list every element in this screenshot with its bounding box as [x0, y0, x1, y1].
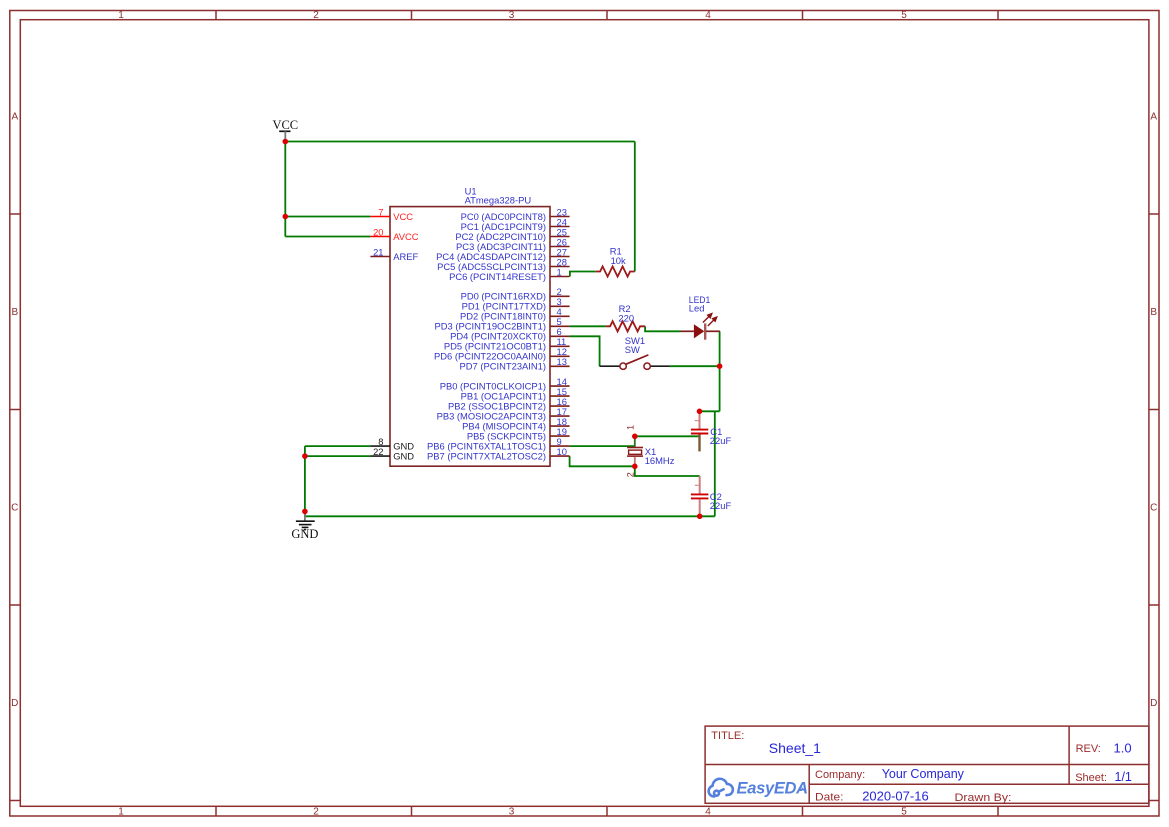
node C1 pin1: [697, 409, 703, 415]
wire over crystal pin1 (overlap): [634, 436, 636, 447]
junction dots: [283, 139, 723, 519]
svg-text:2: 2: [626, 472, 636, 477]
pin 19 PB5: [467, 426, 570, 442]
wire R1 right vertical: [634, 142, 636, 272]
svg-text:5: 5: [901, 10, 907, 21]
svg-text:10k: 10k: [611, 255, 626, 266]
svg-text:Date:: Date:: [815, 791, 844, 803]
wire pin5 to R2: [570, 325, 606, 327]
svg-text:EasyEDA: EasyEDA: [737, 780, 808, 798]
svg-text:4: 4: [705, 807, 711, 818]
wire pin8 GND: [305, 445, 371, 447]
wire LED cathode down: [719, 331, 721, 411]
svg-text:GND: GND: [393, 451, 414, 462]
svg-text:Company:: Company:: [815, 769, 865, 781]
wire pin10 to crystal pin2: [570, 456, 635, 466]
svg-text:A: A: [11, 112, 18, 123]
pin 6 PD4: [450, 326, 569, 342]
resistor R1: [596, 246, 635, 277]
pin 4 PD2: [460, 306, 570, 322]
svg-text:Sheet_1: Sheet_1: [769, 740, 821, 756]
node GND pin22: [302, 453, 308, 459]
frame column numbers bottom: [118, 807, 907, 818]
svg-text:REV:: REV:: [1076, 743, 1101, 755]
svg-text:3: 3: [509, 807, 515, 818]
LED LED1: [681, 294, 720, 340]
svg-text:3: 3: [509, 10, 515, 21]
frame column numbers top: [118, 10, 907, 21]
pin 7 VCC: [370, 206, 413, 222]
pin 18 PB4: [462, 416, 569, 432]
svg-text:A: A: [1150, 112, 1157, 123]
svg-text:D: D: [1150, 698, 1157, 709]
svg-text:ATmega328-PU: ATmega328-PU: [465, 195, 532, 206]
node VCC/pin7: [283, 214, 289, 220]
EasyEDA logo: [709, 779, 733, 797]
pin 5 PD3: [435, 316, 570, 332]
wire GND left vertical: [304, 446, 306, 516]
svg-text:10: 10: [557, 446, 567, 457]
svg-text:7: 7: [378, 206, 383, 217]
svg-text:1: 1: [626, 425, 636, 430]
wire crystal pin2 to C2: [635, 466, 700, 476]
wire pin6 to switch: [570, 336, 600, 366]
capacitor C1: [691, 411, 732, 451]
switch SW1: [600, 335, 670, 369]
svg-text:2020-07-16: 2020-07-16: [862, 789, 929, 804]
svg-text:C: C: [11, 503, 18, 514]
frame row ticks left: [10, 214, 20, 801]
wire pin9 to crystal: [570, 445, 635, 447]
wire to pin7 VCC: [285, 216, 370, 218]
svg-text:SW: SW: [625, 344, 640, 355]
pin 26 PC3: [456, 236, 570, 252]
frame row letters left: [11, 112, 18, 710]
svg-text:GND: GND: [291, 527, 318, 541]
svg-text:2: 2: [313, 807, 319, 818]
svg-text:22uF: 22uF: [710, 500, 732, 511]
pin 10 PB7: [427, 446, 570, 462]
pin 23 PC0: [461, 206, 570, 222]
frame column ticks bottom: [216, 806, 998, 816]
svg-text:4: 4: [705, 10, 711, 21]
svg-text:Led: Led: [689, 303, 705, 314]
op-amp U1 body: [390, 207, 550, 467]
wire pin22 GND: [305, 455, 371, 457]
pin 13 PD7: [460, 356, 570, 372]
pin 17 PB3: [437, 406, 570, 422]
pin 27 PC4: [436, 246, 570, 262]
pin 2 PD0: [461, 286, 570, 302]
node GND symbol: [302, 509, 308, 515]
frame row ticks right: [1149, 214, 1159, 801]
svg-text:22: 22: [373, 446, 383, 457]
svg-text:220: 220: [618, 313, 634, 324]
node VCC flag: [283, 139, 289, 145]
pin 16 PB2: [448, 396, 570, 412]
pin 28 PC5: [437, 256, 569, 272]
svg-text:22uF: 22uF: [710, 435, 732, 446]
svg-text:PB7 (PCINT7XTAL2TOSC2): PB7 (PCINT7XTAL2TOSC2): [427, 451, 546, 462]
pin 1 PC6: [449, 266, 570, 282]
svg-text:PD7 (PCINT23AIN1): PD7 (PCINT23AIN1): [460, 361, 546, 372]
pin 9 PB6: [427, 436, 570, 452]
svg-text:13: 13: [557, 356, 567, 367]
svg-text:2: 2: [313, 10, 319, 21]
svg-text:TITLE:: TITLE:: [711, 730, 744, 742]
svg-text:1/1: 1/1: [1115, 770, 1132, 784]
svg-text:20: 20: [373, 226, 383, 237]
svg-text:1: 1: [118, 807, 124, 818]
crystal X1: [626, 425, 675, 477]
svg-text:5: 5: [901, 807, 907, 818]
svg-text:B: B: [1150, 307, 1157, 318]
wire VCC stem down: [284, 142, 286, 237]
node switch/GND vertical: [717, 363, 723, 369]
svg-text:VCC: VCC: [393, 211, 413, 222]
wire crystal pin1 to C1: [635, 435, 700, 437]
frame column ticks top: [216, 11, 998, 20]
svg-text:21: 21: [373, 246, 383, 257]
ground symbol: [291, 511, 318, 541]
svg-text:Sheet:: Sheet:: [1075, 772, 1107, 784]
wire R2 to LED: [645, 326, 680, 331]
pin 24 PC1: [461, 216, 570, 232]
svg-text:Drawn By:: Drawn By:: [955, 792, 1012, 804]
svg-text:Your Company: Your Company: [882, 767, 965, 781]
node crystal pin2: [632, 464, 638, 470]
wire pin1 to R1: [570, 272, 596, 277]
svg-text:D: D: [11, 698, 18, 709]
svg-text:AVCC: AVCC: [393, 231, 419, 242]
svg-text:16MHz: 16MHz: [645, 455, 675, 466]
wire switch to vertical: [670, 365, 720, 367]
pin 12 PD6: [434, 346, 570, 362]
frame row letters right: [1150, 112, 1157, 710]
node crystal pin1: [632, 434, 638, 440]
svg-text:1: 1: [118, 10, 124, 21]
svg-text:1.0: 1.0: [1114, 740, 1132, 755]
wire GND rail: [305, 515, 715, 517]
wire gnd vertical: [714, 411, 716, 516]
wire to C1 pin1: [700, 410, 720, 412]
pin 11 PD5: [444, 336, 570, 352]
pin 14 PB0: [440, 376, 570, 392]
wire VCC top rail: [285, 142, 719, 517]
VCC net flag: [272, 118, 298, 142]
pin 3 PD1: [462, 296, 570, 312]
resistor R2: [606, 303, 645, 331]
pin 8 GND: [370, 436, 414, 452]
pin 21 AREF: [370, 246, 418, 262]
svg-text:PC6 (PCINT14RESET): PC6 (PCINT14RESET): [449, 271, 546, 282]
pin 20 AVCC: [370, 226, 418, 242]
node C2 pin2: [697, 514, 703, 520]
pin 15 PB1: [461, 386, 570, 402]
svg-text:1: 1: [557, 266, 562, 277]
pin 25 PC2: [455, 226, 569, 242]
svg-text:VCC: VCC: [272, 118, 298, 132]
svg-text:C: C: [1150, 503, 1157, 514]
capacitor C2: [691, 476, 732, 516]
pin 22 GND: [370, 446, 414, 462]
svg-text:B: B: [11, 307, 18, 318]
wire to pin20 AVCC: [285, 236, 370, 238]
svg-text:AREF: AREF: [393, 251, 418, 262]
LED arrows: [703, 314, 717, 326]
